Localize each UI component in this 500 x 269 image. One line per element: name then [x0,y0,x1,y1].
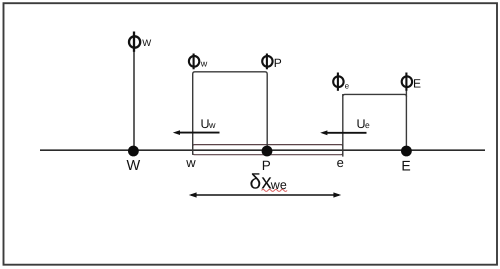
phi_w symbol [189,54,208,70]
phi_P symbol [262,54,282,70]
x-axis line [40,149,485,151]
dimension arrow delta x (w to e) [189,192,341,197]
node E dot [401,146,412,157]
control volume rectangle (w to e) [193,145,343,155]
node P dot [262,146,273,157]
svg-text:w: w [185,155,196,170]
red squiggly underline under x_we [262,189,288,191]
U_w velocity arrow [173,130,220,135]
phi_E symbol [402,73,421,91]
svg-text:w: w [208,120,216,130]
delta x_we label [250,170,287,193]
upwind box e-E: top edge [343,94,407,96]
phi_e symbol [333,73,349,91]
upwind box w-P: top edge [193,72,268,155]
vertical line at node W [133,32,135,151]
vertical line at face e [342,94,344,157]
svg-text:W: W [142,38,151,49]
svg-text:P: P [274,56,282,70]
node W dot [128,146,139,157]
U_e velocity arrow [320,130,366,135]
svg-text:e: e [337,155,344,170]
svg-text:w: w [200,59,208,69]
svg-text:we: we [270,178,287,192]
svg-text:e: e [345,82,350,91]
svg-text:E: E [413,77,421,91]
phi_W symbol [129,32,151,52]
svg-text:W: W [126,158,140,174]
svg-text:E: E [401,157,410,173]
U_w label [201,117,217,131]
vertical line at node E [405,74,407,150]
U_e label [357,117,371,131]
svg-text:e: e [365,120,370,130]
